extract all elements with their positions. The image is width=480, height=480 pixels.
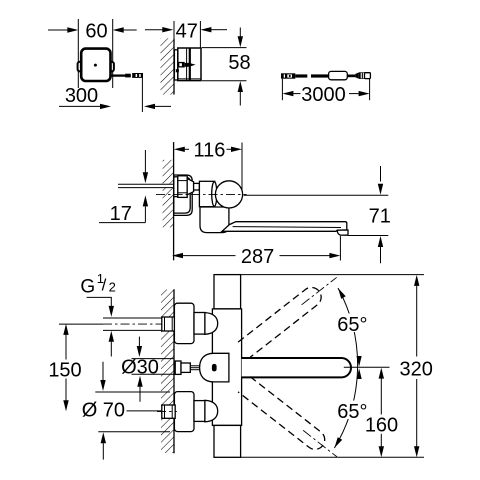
spout outlet <box>337 230 348 235</box>
wall hatching <box>161 290 174 454</box>
dim 60 line left + arrow <box>48 29 68 31</box>
svg-text:3000: 3000 <box>301 84 346 106</box>
svg-text:17: 17 <box>110 203 132 225</box>
supply pipe <box>118 184 174 188</box>
dim 287 extension <box>339 236 341 261</box>
svg-text:60: 60 <box>85 21 107 43</box>
wall face line <box>173 38 175 94</box>
svg-text:Ø 70: Ø 70 <box>82 399 125 421</box>
box bottom inner line <box>178 78 201 80</box>
svg-text:/: / <box>102 276 107 295</box>
dim 58 extension lines <box>202 47 247 49</box>
dim 17 vertical line + arrows <box>144 150 146 173</box>
spout bar <box>222 222 347 232</box>
svg-text:160: 160 <box>365 414 398 436</box>
svg-text:58: 58 <box>228 52 250 74</box>
65 deg upper label <box>336 314 369 333</box>
dim 71 bottom arrow <box>378 236 383 247</box>
box side body <box>178 48 201 81</box>
wall hatching top view <box>163 160 174 228</box>
dim O70 arrows <box>102 362 104 381</box>
body bottom cap <box>214 425 241 457</box>
union nut <box>174 177 178 197</box>
dim 3000 extension lines <box>281 79 283 101</box>
supply pipe top <box>103 317 162 330</box>
side connector <box>178 62 185 68</box>
dim 71 top arrow <box>380 166 382 182</box>
body main <box>212 309 241 426</box>
svg-text:320: 320 <box>400 359 433 381</box>
cable control block <box>329 71 348 79</box>
mounting tab left <box>78 62 83 72</box>
svg-text:300: 300 <box>65 85 98 107</box>
sensor head circle <box>215 181 242 208</box>
dim 320 top ref line <box>241 274 424 276</box>
dim O30 arrows <box>138 337 140 347</box>
escutcheon outer <box>174 175 192 215</box>
spout base <box>200 207 229 233</box>
box center dot <box>94 64 97 67</box>
G 1/2 leader + arrow <box>87 297 112 306</box>
sensor window dot <box>212 364 217 372</box>
svg-text:150: 150 <box>48 359 81 381</box>
dim 47 right arrow <box>200 27 211 32</box>
top connector <box>194 313 205 335</box>
dashed spout down position <box>238 377 343 465</box>
dim 60 extension lines <box>77 19 79 88</box>
stem <box>194 183 200 190</box>
sensor wires <box>190 365 200 367</box>
dim 116 extension lines <box>241 143 243 193</box>
cable right plug <box>355 72 359 78</box>
svg-text:47: 47 <box>176 20 198 42</box>
dim 287 line arrows label <box>172 253 183 258</box>
dim 320 line arrows label <box>414 275 419 286</box>
dim 300 extension line <box>141 78 143 113</box>
control box body <box>81 49 110 81</box>
dim 150 top ref line <box>59 323 103 325</box>
mounting tab right <box>109 62 114 72</box>
dim 47 left arrow <box>145 29 163 31</box>
dim 58 bottom arrow <box>238 81 243 92</box>
cable from box <box>111 74 126 76</box>
sensor housing <box>200 353 229 382</box>
dim 300 line + arrows <box>59 105 101 107</box>
svg-text:116: 116 <box>194 140 226 162</box>
top union nut <box>162 317 175 331</box>
dim 17 leader + label <box>99 222 145 224</box>
arc arrowheads <box>338 288 346 299</box>
escutcheon inner <box>174 177 190 213</box>
bottom nut centerline <box>157 411 177 413</box>
sensor conduit fitting <box>175 361 181 374</box>
swivel arc <box>334 288 357 448</box>
wall hatching <box>161 38 175 94</box>
G 1/2 lower arrow <box>109 331 114 342</box>
65 deg lower label <box>336 401 369 420</box>
dim 160 ref line <box>344 366 390 368</box>
cable segment <box>347 75 355 78</box>
dim O30 ref lines <box>132 358 175 360</box>
dim 150 line arrows label <box>63 324 68 335</box>
cable segment <box>295 74 307 77</box>
box side bracket <box>174 50 177 80</box>
dim 3000 arrows + label <box>282 91 293 96</box>
svg-text:65°: 65° <box>337 314 367 336</box>
dim O70 ref lines <box>95 391 170 393</box>
top escutcheon <box>174 303 194 343</box>
side hook <box>176 69 179 72</box>
dim 71 reference lines <box>244 194 389 196</box>
body top cap <box>214 275 241 309</box>
dim 320 bottom ref line <box>241 456 424 458</box>
box lid line bold <box>189 48 191 81</box>
bottom connector <box>194 401 205 422</box>
svg-text:Ø30: Ø30 <box>121 356 159 378</box>
dim 47 extension lines <box>173 21 175 38</box>
spout mid line <box>233 226 341 229</box>
dim 116 arrows + label <box>174 147 185 152</box>
dim 160 line arrows label <box>379 368 384 379</box>
cable left plug <box>281 73 295 78</box>
svg-text:G: G <box>80 277 95 298</box>
svg-text:65°: 65° <box>337 401 367 423</box>
body block <box>199 181 214 206</box>
dashed spout up position <box>238 270 343 358</box>
centerline dash-dot <box>156 193 247 195</box>
cable segment <box>311 74 329 77</box>
dim 60 right arrow <box>113 27 124 32</box>
wall face line <box>173 289 175 453</box>
cylinder edge <box>212 182 217 206</box>
svg-text:287: 287 <box>241 246 274 268</box>
wall face line <box>173 142 175 260</box>
bottom valve dome <box>205 400 218 422</box>
box inner line <box>186 49 188 80</box>
svg-text:71: 71 <box>369 205 391 227</box>
dim 58 top arrow <box>239 28 241 38</box>
bottom escutcheon <box>174 392 194 432</box>
spout plan view <box>242 358 351 377</box>
bottom union nut <box>162 405 175 418</box>
top valve dome <box>205 313 218 335</box>
taper cone <box>187 179 193 195</box>
svg-text:2: 2 <box>109 280 116 295</box>
pipe centerline dash-dot <box>103 323 177 325</box>
